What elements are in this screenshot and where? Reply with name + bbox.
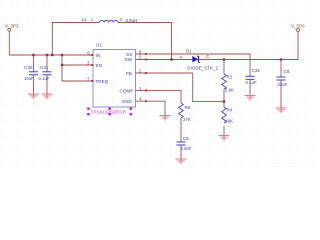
svg-text:C30: C30 (24, 65, 33, 70)
diode D1 (186, 49, 219, 71)
capacitor C31 (39, 55, 52, 94)
wire diode cathode to output (199, 32, 298, 60)
resistor R5 (179, 103, 191, 142)
wire SS to C32 (136, 54, 251, 76)
ground under GND pin (160, 116, 171, 122)
svg-text:5.9K: 5.9K (225, 88, 234, 93)
svg-text:SW: SW (125, 57, 133, 62)
port V_3P3 (5, 24, 19, 32)
wire GND pin (136, 101, 166, 115)
svg-text:A: A (180, 54, 183, 59)
svg-text:IN: IN (96, 53, 101, 58)
svg-text:C6: C6 (284, 69, 290, 74)
ground under C5 (176, 159, 187, 165)
capacitor C30 (24, 55, 38, 94)
resistor R2 (222, 60, 234, 102)
ground under R4 (219, 136, 230, 142)
ground under C32 (245, 96, 256, 102)
node junction FB divider (223, 100, 225, 102)
capacitor C32 (246, 68, 261, 96)
capacitor C6 (277, 60, 290, 109)
wire EN FREQ dropper (62, 55, 93, 81)
svg-text:U1: U1 (96, 43, 102, 48)
wire FB (136, 73, 225, 102)
capacitor C5 (177, 136, 192, 159)
node junction R2 (223, 58, 225, 60)
wire riser to inductor (52, 23, 99, 56)
node junction EN dropper (61, 54, 63, 56)
svg-text:V_3P3: V_3P3 (5, 24, 19, 29)
svg-text:L1: L1 (82, 17, 87, 22)
IC U1 (regulator) (93, 43, 136, 107)
wire VIN rail (9, 54, 93, 56)
svg-text:FB: FB (126, 71, 132, 76)
svg-text:DIODE_STK_2: DIODE_STK_2 (187, 66, 218, 71)
svg-text:COMP: COMP (120, 88, 134, 93)
svg-text:C5: C5 (183, 136, 189, 141)
wire V_3P3 riser (8, 31, 10, 55)
part number text (selected) (87, 107, 132, 115)
svg-text:0.1uF: 0.1uF (246, 80, 257, 85)
wire top L1 to riser (118, 22, 172, 24)
svg-text:D1: D1 (186, 49, 192, 54)
inductor L1 (82, 17, 118, 23)
ground under C31 (42, 94, 53, 100)
node junction riser (51, 54, 53, 56)
node junction EN branch (61, 64, 63, 66)
svg-text:27K: 27K (183, 117, 191, 122)
wire EN branch (62, 64, 93, 66)
svg-text:R4: R4 (227, 108, 233, 113)
svg-text:C32: C32 (252, 68, 261, 73)
node junction C6 (280, 58, 282, 60)
svg-text:22uF: 22uF (278, 82, 288, 87)
resistor R4 (222, 102, 234, 136)
node junction C31 (46, 54, 48, 56)
svg-text:5.6nF: 5.6nF (181, 146, 192, 151)
svg-text:R2: R2 (227, 75, 233, 80)
node junction C30 (32, 54, 34, 56)
svg-text:C: C (206, 54, 209, 59)
svg-text:EN: EN (96, 63, 102, 68)
svg-text:GND: GND (122, 99, 133, 104)
wire SW row (136, 59, 193, 61)
svg-text:18K: 18K (226, 118, 234, 123)
ground under C6 (276, 108, 287, 114)
svg-text:C31: C31 (40, 65, 49, 70)
wire riser down to SW row (171, 23, 173, 60)
svg-text:0.1uF: 0.1uF (39, 76, 50, 81)
node junction riser-SW (170, 58, 172, 60)
svg-text:V_5P0: V_5P0 (291, 24, 305, 29)
svg-text:R5: R5 (185, 105, 191, 110)
ground under C30 (28, 94, 39, 100)
port V_5P0 (291, 24, 305, 32)
svg-text:10uF: 10uF (24, 76, 34, 81)
wire COMP (136, 90, 182, 103)
svg-text:FREQ: FREQ (96, 79, 109, 84)
